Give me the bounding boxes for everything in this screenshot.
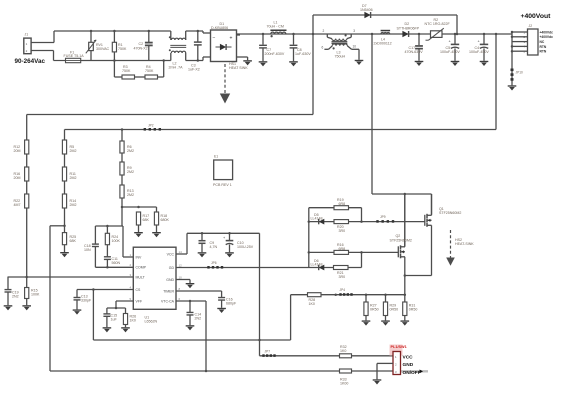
svg-text:STF25N60M2: STF25N60M2: [390, 238, 412, 242]
svg-text:10N: 10N: [84, 248, 91, 252]
svg-text:68K: 68K: [70, 239, 77, 243]
svg-text:750K: 750K: [122, 69, 131, 73]
svg-text:RTN: RTN: [540, 45, 547, 49]
svg-text:HEAT SINK: HEAT SINK: [229, 66, 248, 70]
svg-text:100uF-450V: 100uF-450V: [469, 50, 489, 54]
svg-text:NC: NC: [540, 40, 545, 44]
svg-text:470N-630V: 470N-630V: [405, 50, 424, 54]
svg-text:VCC: VCC: [403, 355, 414, 361]
svg-text:1uF: 1uF: [111, 318, 118, 322]
svg-text:1N5406: 1N5406: [360, 8, 373, 12]
svg-text:1uF-630V: 1uF-630V: [295, 52, 311, 56]
svg-text:750K: 750K: [118, 47, 127, 51]
svg-text:INV: INV: [136, 255, 143, 259]
svg-text:PL1/SW1: PL1/SW1: [391, 345, 407, 349]
svg-text:VCC: VCC: [167, 252, 175, 256]
svg-text:1uF-X2: 1uF-X2: [188, 68, 200, 72]
svg-text:LL4148: LL4148: [311, 263, 323, 267]
svg-text:MULT: MULT: [136, 275, 146, 279]
svg-text:0R50: 0R50: [390, 308, 399, 312]
svg-text:2M2: 2M2: [127, 170, 134, 174]
svg-text:+400Vdc: +400Vdc: [540, 35, 554, 39]
svg-text:560N: 560N: [112, 261, 121, 265]
svg-text:750K: 750K: [145, 69, 154, 73]
svg-text:70uH - CM: 70uH - CM: [267, 25, 284, 29]
svg-text:GD: GD: [169, 266, 175, 270]
svg-text:4,7N: 4,7N: [210, 245, 218, 249]
svg-text:10: 10: [179, 275, 183, 279]
svg-text:0R50: 0R50: [409, 308, 418, 312]
svg-text:J1: J1: [25, 33, 29, 37]
svg-text:2M2: 2M2: [70, 176, 77, 180]
svg-text:14: 14: [179, 250, 183, 254]
svg-text:D-KBU806: D-KBU806: [211, 26, 228, 30]
svg-text:GND: GND: [403, 362, 414, 368]
svg-text:JP4: JP4: [340, 288, 346, 292]
svg-text:JP7: JP7: [265, 349, 271, 353]
svg-text:GND: GND: [166, 278, 174, 282]
svg-text:JP2: JP2: [148, 123, 154, 127]
svg-text:200nF-630V: 200nF-630V: [265, 52, 285, 56]
svg-text:6R8: 6R8: [339, 202, 346, 206]
svg-text:6: 6: [322, 45, 324, 49]
svg-text:L6562N: L6562N: [145, 320, 158, 324]
svg-text:2M2: 2M2: [127, 149, 134, 153]
svg-text:90-264Vac: 90-264Vac: [15, 58, 46, 65]
svg-text:2M2: 2M2: [70, 149, 77, 153]
svg-text:2M2: 2M2: [127, 193, 134, 197]
svg-text:3: 3: [353, 29, 355, 33]
svg-text:680pF: 680pF: [226, 302, 237, 306]
svg-text:20M: 20M: [14, 149, 21, 153]
svg-text:2: 2: [323, 29, 325, 33]
svg-text:+400Vout: +400Vout: [521, 13, 552, 20]
svg-text:100K: 100K: [112, 239, 121, 243]
svg-text:2xD000112: 2xD000112: [374, 42, 392, 46]
svg-text:1K0: 1K0: [340, 349, 346, 353]
svg-text:20M: 20M: [14, 176, 21, 180]
svg-text:NTC 1RO-822F: NTC 1RO-822F: [425, 22, 451, 26]
svg-text:10: 10: [353, 45, 357, 49]
svg-text:FUSE T5.1A: FUSE T5.1A: [64, 54, 85, 58]
svg-text:2N2: 2N2: [195, 317, 202, 321]
svg-text:100uF-450V: 100uF-450V: [440, 50, 460, 54]
svg-text:RTN: RTN: [540, 50, 547, 54]
svg-text:1K0: 1K0: [309, 302, 315, 306]
svg-text:STTH8R06FP: STTH8R06FP: [397, 26, 420, 30]
svg-text:6R8: 6R8: [339, 247, 346, 251]
svg-text:680K: 680K: [161, 218, 170, 222]
svg-text:J2: J2: [529, 24, 533, 28]
svg-text:2N2: 2N2: [12, 295, 19, 299]
svg-text:VFF: VFF: [136, 299, 143, 303]
svg-text:300VAC: 300VAC: [96, 47, 110, 51]
svg-text:330pF: 330pF: [81, 299, 92, 303]
svg-text:ON/OFF: ON/OFF: [403, 370, 421, 376]
svg-text:2M2: 2M2: [70, 203, 77, 207]
svg-text:2mH .7A: 2mH .7A: [169, 66, 184, 70]
svg-text:100U-25V: 100U-25V: [237, 245, 254, 249]
svg-text:HEAT-SINK: HEAT-SINK: [455, 242, 474, 246]
svg-text:E1: E1: [214, 155, 218, 159]
svg-text:12: 12: [179, 263, 183, 267]
svg-text:VTC-CA: VTC-CA: [161, 299, 175, 303]
svg-text:CS: CS: [136, 288, 142, 292]
svg-text:4M7: 4M7: [14, 203, 21, 207]
svg-text:3R0: 3R0: [339, 275, 346, 279]
svg-text:COMP: COMP: [136, 266, 147, 270]
svg-text:+400Vdc: +400Vdc: [540, 30, 554, 34]
svg-text:TIMER: TIMER: [163, 289, 174, 293]
svg-text:1K0: 1K0: [130, 319, 136, 323]
svg-text:100K: 100K: [31, 293, 40, 297]
svg-text:470N-X2: 470N-X2: [134, 46, 148, 50]
svg-text:−: −: [213, 36, 216, 42]
svg-text:3R0: 3R0: [339, 229, 346, 233]
svg-text:68K: 68K: [143, 218, 150, 222]
svg-text:0R50: 0R50: [370, 308, 379, 312]
svg-text:STF25N60M2: STF25N60M2: [439, 211, 461, 215]
svg-text:JP9: JP9: [380, 215, 386, 219]
svg-text:PCB REV 1: PCB REV 1: [213, 183, 232, 187]
svg-text:1K00: 1K00: [340, 382, 348, 386]
svg-text:LL4148: LL4148: [311, 217, 323, 221]
svg-text:JP10: JP10: [516, 71, 523, 75]
svg-text:+: +: [230, 36, 233, 42]
svg-text:750uH: 750uH: [335, 55, 346, 59]
svg-text:JP6: JP6: [211, 261, 217, 265]
